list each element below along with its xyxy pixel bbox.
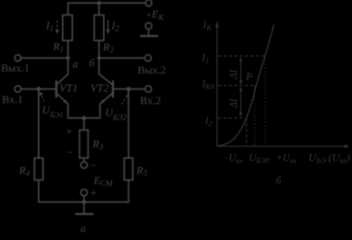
svg-text:ΔI: ΔI <box>229 98 240 109</box>
wire R2 bottom lead <box>98 41 100 59</box>
arrow VT2 emitter head <box>101 99 105 103</box>
wire EK terminal to chassis <box>148 29 150 36</box>
resistor R1 <box>63 15 73 41</box>
terminal Vyh2 <box>145 55 151 61</box>
svg-text:ΔI: ΔI <box>229 69 240 80</box>
ground chassis bar top right <box>141 35 158 37</box>
wire Vyh2 to collector node b <box>99 57 145 59</box>
wire VT1 collector <box>57 58 68 85</box>
wire top supply rail <box>68 2 145 4</box>
terminal ESM plus <box>81 189 88 196</box>
wire VT2 collector <box>99 58 112 85</box>
curve transfer characteristic <box>218 25 274 147</box>
svg-text:а: а <box>81 223 87 234</box>
wire ESM to bottom rail <box>83 196 85 202</box>
current I2 solid arrow <box>106 20 110 34</box>
svg-text:а: а <box>73 59 79 71</box>
terminal Vh2 <box>145 86 151 92</box>
dashed vertical -Uvh <box>246 118 248 146</box>
terminal Vh1 <box>15 86 21 92</box>
dashed level I2 <box>218 117 246 119</box>
axis x UBE <box>217 145 346 147</box>
node bottom rail junction dot <box>82 200 86 204</box>
axis y IK <box>216 24 218 146</box>
dashed level IK0 <box>218 85 255 87</box>
resistor R2 <box>94 15 104 41</box>
wire Vyh1 to collector node a <box>21 57 68 59</box>
wire R1 bottom lead <box>67 41 69 59</box>
resistor R5 <box>124 158 133 180</box>
dotted vertical UBER <box>254 86 256 146</box>
current I1 dashed arrow <box>55 21 59 35</box>
arrow VT1 emitter head <box>63 99 67 103</box>
terminal Vyh1 <box>15 55 21 61</box>
voltage arrow UBE2 <box>122 92 130 104</box>
svg-text:Вых.1: Вых.1 <box>1 63 29 75</box>
svg-text:+: + <box>66 126 72 138</box>
svg-text:+: + <box>91 188 97 200</box>
wire R5 bottom lead <box>128 180 130 202</box>
wire R3 to ESM top terminal <box>83 158 85 162</box>
svg-text:−: − <box>90 160 96 172</box>
node input1 junction dot <box>37 87 41 91</box>
svg-text:Вх.2: Вх.2 <box>140 95 161 107</box>
dashed level I1 <box>218 55 266 57</box>
wire Vh2 to VT2 base <box>114 88 145 90</box>
svg-text:VT2: VT2 <box>91 83 110 95</box>
node junction top rail to R2 <box>97 1 101 5</box>
ground chassis bar bottom <box>76 213 93 215</box>
wire R2 top lead <box>98 3 100 15</box>
node emitter junction dot <box>82 116 86 120</box>
node input2 junction dot <box>126 87 130 91</box>
wire Vh1 to VT1 base <box>21 88 55 90</box>
arrow dI lower <box>240 90 242 114</box>
svg-text:VT1: VT1 <box>60 83 78 95</box>
svg-text:Вх.1: Вх.1 <box>2 94 23 106</box>
svg-text:Вых.2: Вых.2 <box>138 65 166 77</box>
svg-text:Р: Р <box>245 72 252 83</box>
wire emitter bus <box>68 117 100 119</box>
terminal ESM minus <box>81 162 88 169</box>
node b junction dot <box>97 56 101 60</box>
wire emitter junction to R3 <box>83 118 85 130</box>
wire VT2 emitter <box>100 94 112 119</box>
terminal +EK <box>145 0 151 6</box>
arrow dI upper <box>240 61 242 82</box>
transistor VT1 base bar <box>55 81 57 96</box>
transistor VT2 base bar <box>112 81 114 96</box>
wire bottom rail <box>39 201 129 203</box>
resistor R4 <box>34 158 43 180</box>
ground stem bottom <box>83 202 85 214</box>
wire VT1 emitter <box>57 94 68 119</box>
wire R1 top lead <box>67 3 69 15</box>
svg-text:−: − <box>67 147 73 159</box>
terminal EK ground side <box>145 23 151 29</box>
node a junction dot <box>66 56 70 60</box>
svg-text:б: б <box>89 58 95 70</box>
dotted vertical +Uvh <box>264 57 266 146</box>
wire R5 branch <box>128 91 130 158</box>
resistor R3 <box>80 130 89 158</box>
voltage arrow UBE1 <box>39 92 44 102</box>
wire R4 branch <box>38 91 40 158</box>
wire R4 bottom lead <box>38 180 40 202</box>
